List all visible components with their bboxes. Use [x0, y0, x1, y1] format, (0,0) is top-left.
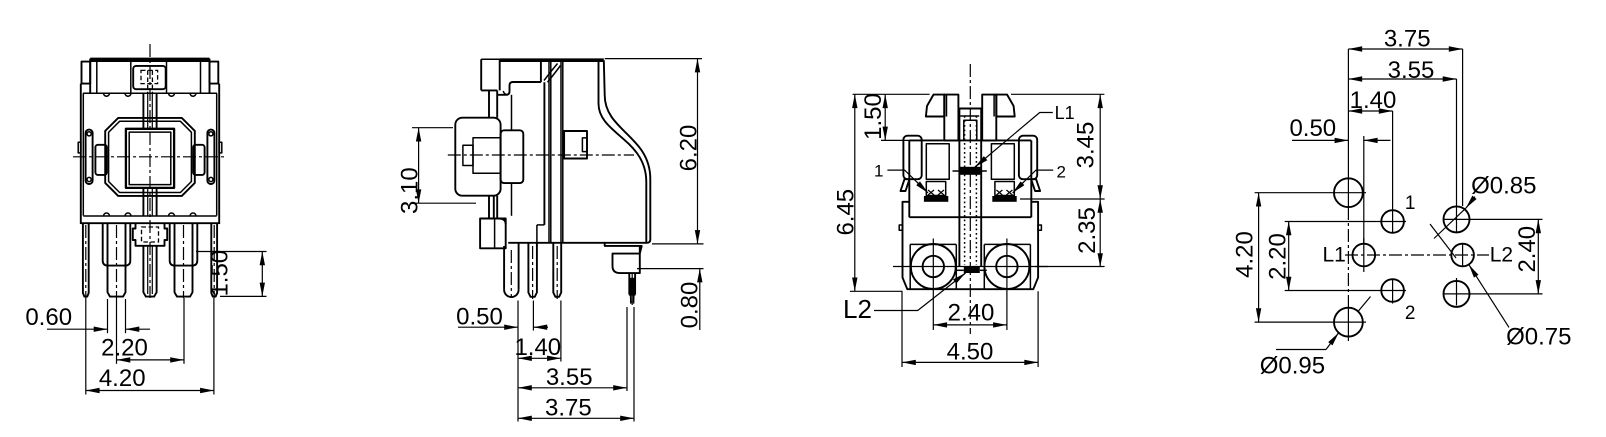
hole L1 [1353, 244, 1376, 267]
front foot block [480, 219, 506, 249]
extension lines [85, 298, 87, 395]
svg-text:2.40: 2.40 [1514, 226, 1541, 273]
vertical centerline [149, 44, 151, 298]
spring wire arcs [544, 64, 558, 81]
octagon outer [105, 118, 195, 196]
svg-text:L1: L1 [1323, 244, 1346, 267]
dimension 6.45 [854, 94, 856, 291]
hole Φ0.95 bottom [1334, 308, 1363, 337]
left top tab [944, 95, 958, 141]
3.75 extension line [1462, 49, 1464, 206]
hole Φ0.85 top [1444, 206, 1470, 232]
top-left block [480, 59, 482, 90]
right post circle [984, 244, 1029, 289]
cap segment lines [96, 61, 98, 93]
svg-text:Ø0.85: Ø0.85 [1471, 173, 1536, 200]
rear terminal leg [553, 243, 561, 297]
leg 2 shoulder [170, 223, 198, 265]
terminal 1 (black) [924, 196, 948, 202]
hole pin 2 [1381, 279, 1404, 302]
svg-text:1: 1 [874, 162, 883, 181]
middle terminal leg [528, 243, 537, 297]
dimension 1.50 [881, 139, 926, 141]
svg-text:4.50: 4.50 [947, 339, 994, 366]
left post boss [910, 243, 956, 245]
cap bottom scalloped edge [83, 93, 217, 96]
shaft lower segment [142, 188, 144, 216]
cover seam lines [548, 61, 550, 243]
right top tab wing [996, 95, 1014, 117]
left cavity [926, 144, 949, 180]
dimension 2.35 [1035, 266, 1105, 268]
svg-text:3.10: 3.10 [397, 167, 424, 214]
terminal leg 1 [108, 223, 126, 296]
front face nub [564, 131, 587, 159]
dimension 6.20 [605, 58, 702, 60]
shaft upper segment [142, 93, 144, 129]
svg-text:0.50: 0.50 [1289, 115, 1336, 142]
svg-text:6.45: 6.45 [832, 189, 859, 236]
horizontal centerline [448, 154, 634, 156]
svg-text:0.80: 0.80 [677, 282, 704, 329]
svg-text:3.55: 3.55 [1388, 57, 1435, 84]
horizontal centerline [73, 156, 227, 158]
stem shaft lines [488, 90, 490, 117]
dimension 0.50 [458, 326, 518, 328]
svg-text:1: 1 [1405, 193, 1416, 214]
left top tab wing [926, 95, 944, 117]
dimension 3.75 [1348, 48, 1462, 50]
right cavity [991, 144, 1014, 180]
dimension 4.20 [86, 390, 214, 392]
svg-text:Ø0.95: Ø0.95 [1260, 353, 1325, 380]
contact L1 (black) [959, 167, 981, 175]
svg-text:L2: L2 [843, 294, 872, 324]
svg-text:4.20: 4.20 [99, 365, 146, 392]
hole Φ0.85 bottom [1444, 281, 1470, 307]
actuator square [126, 129, 174, 188]
terminal leg 2 [175, 223, 193, 296]
left side clip [86, 130, 93, 184]
right hook [1031, 179, 1040, 191]
dimension 3.75 [518, 417, 634, 419]
left side wing [903, 136, 921, 180]
stem flange [501, 130, 524, 183]
top edge [481, 58, 500, 60]
octagon right tab [193, 145, 205, 175]
octagon left tab [95, 145, 107, 175]
cap center boss [133, 66, 166, 89]
svg-text:4.20: 4.20 [1231, 231, 1258, 278]
svg-text:2.20: 2.20 [1264, 233, 1291, 280]
dimension 0.50 [1292, 139, 1348, 141]
hole row extension lines [1255, 192, 1366, 194]
svg-text:1.50: 1.50 [860, 93, 887, 140]
svg-text:1.40: 1.40 [1350, 87, 1397, 114]
hole L1 centerline [1363, 136, 1365, 244]
view 2: side view [397, 59, 704, 422]
dimension 2.20 [117, 359, 185, 361]
dimension 4.50 [901, 291, 903, 367]
svg-text:2.40: 2.40 [948, 300, 995, 327]
terminal windows [926, 182, 945, 196]
right ear [210, 62, 219, 84]
dimension 0.60 [47, 328, 108, 330]
dimension 3.10 [412, 127, 453, 129]
body right edge [218, 84, 220, 224]
right clip leg [211, 224, 217, 297]
top thick edge [500, 58, 604, 62]
svg-text:6.20: 6.20 [676, 125, 703, 172]
dimension 1.50 [196, 251, 267, 253]
dimension 3.45 [1020, 198, 1105, 200]
dimension 3.55 [1348, 78, 1456, 80]
bent bracket inner curve [599, 60, 647, 243]
shaft hidden lines [964, 116, 966, 265]
left clip leg [83, 224, 89, 297]
svg-text:2.35: 2.35 [1074, 207, 1101, 254]
svg-text:2: 2 [1057, 163, 1066, 182]
svg-text:0.50: 0.50 [456, 304, 503, 331]
housing front face [543, 82, 545, 225]
view 3: rear view [832, 64, 1104, 367]
right top tab [982, 95, 996, 141]
hidden shaft in boss [141, 70, 158, 83]
svg-text:3.55: 3.55 [546, 364, 593, 391]
upper body [909, 140, 1031, 217]
svg-text:3.45: 3.45 [1073, 122, 1100, 169]
column B centerline [1392, 111, 1394, 233]
3.55 extension line [1456, 79, 1458, 233]
hole pin 1 [1381, 210, 1404, 233]
svg-text:L1: L1 [1055, 103, 1075, 123]
stem body [455, 118, 500, 196]
contact L2 (black) [964, 267, 980, 273]
extension lines [517, 301, 519, 422]
left post circle [911, 244, 956, 289]
bottom center plug [133, 223, 167, 246]
dimension 1.40 [518, 357, 561, 359]
dimension 3.55 [518, 387, 627, 389]
top cap outline [90, 58, 209, 60]
svg-text:L2: L2 [1490, 244, 1513, 267]
bottom band scalloped edge [83, 213, 216, 216]
svg-text:0.60: 0.60 [25, 304, 72, 331]
view 1: front view [25, 44, 266, 395]
left hook [901, 179, 910, 191]
right side clip [207, 130, 214, 184]
hole Φ0.95 top [1334, 178, 1363, 207]
leg 1 shoulder [103, 223, 131, 265]
leg centerlines [85, 225, 87, 298]
octagon inner [109, 121, 192, 192]
dimension 2.20 [1288, 222, 1290, 291]
body left edge [80, 84, 82, 224]
right post boss [984, 243, 1030, 245]
lower shaft lines [488, 196, 490, 219]
left ear [82, 62, 91, 84]
view 4: PCB footprint [1231, 26, 1571, 380]
dimension 2.40 [1537, 219, 1539, 294]
bracket pin [628, 273, 630, 294]
top cap thick edge [91, 58, 209, 62]
right side wing [1019, 136, 1037, 180]
svg-text:3.75: 3.75 [1384, 26, 1431, 53]
svg-text:3.75: 3.75 [545, 395, 592, 422]
column A centerline [1347, 49, 1349, 207]
post centerlines [893, 266, 1048, 268]
svg-text:1.50: 1.50 [207, 250, 234, 297]
shaft walls [958, 140, 960, 267]
dimension 0.80 [637, 268, 704, 270]
terminal 2 (black) [992, 196, 1016, 202]
L1-L2 row centerline [1345, 254, 1489, 256]
svg-text:2: 2 [1405, 303, 1416, 324]
stem inner detail [473, 138, 501, 173]
dimension 1.40 [1348, 110, 1392, 112]
svg-text:Ø0.75: Ø0.75 [1506, 324, 1571, 351]
center top block [959, 109, 981, 141]
hole L2 [1451, 244, 1474, 267]
cap face line [540, 61, 542, 82]
stepped front profile [497, 82, 541, 95]
housing bottom edge [508, 242, 605, 244]
U-shaped front leg [503, 246, 505, 290]
top reference extension [853, 93, 930, 95]
center shaft leg [143, 246, 156, 297]
dimension 2.40 [932, 295, 934, 331]
body bottom edge [81, 222, 219, 224]
svg-text:1.40: 1.40 [514, 334, 561, 361]
vertical centerline [969, 64, 971, 334]
bracket boss and cup [605, 243, 642, 273]
svg-text:2.20: 2.20 [101, 334, 148, 361]
bent bracket outer curve [604, 60, 651, 243]
lower body [903, 202, 1039, 289]
dimension 4.20 [1258, 193, 1260, 322]
